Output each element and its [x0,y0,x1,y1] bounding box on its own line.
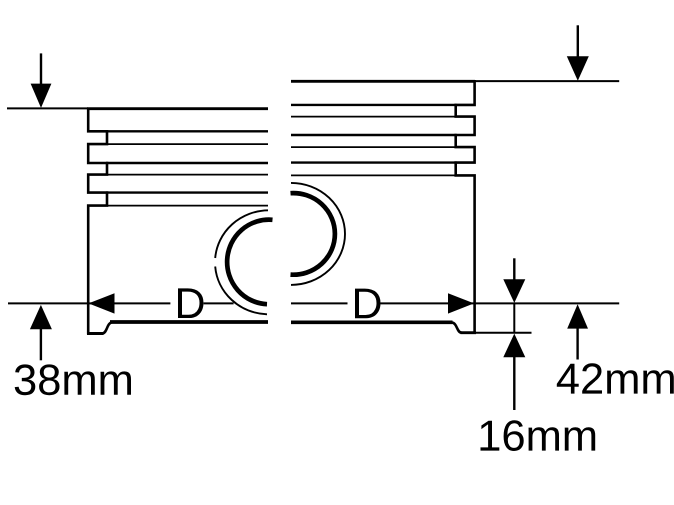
left piston skirt fillet [103,322,114,333]
16mm arrow (pointing up) head [503,334,525,358]
left piston skirt bottom line [110,320,268,324]
right piston ring line 2 top [291,134,457,136]
dimension line D (left piston, right of letter) [204,302,234,304]
right piston skirt bottom line [291,320,453,324]
16mm arrow (pointing down) head [503,279,525,303]
42mm arrow (pointing up) shaft [576,328,578,360]
left piston bottom tip line [87,332,104,335]
38mm arrow (pointing down) head [31,84,52,108]
right piston crown extension line [474,80,619,82]
dimension line D (left piston, left of letter) [8,302,170,304]
left piston left edge with ring grooves [88,108,107,335]
left piston ring line 2 bottom [106,174,268,176]
left piston pin bore inner thick arc [227,220,272,305]
right piston ring line 3 top [291,161,457,163]
38mm arrow (pointing up) head [30,305,52,329]
42mm arrow (pointing down) head [567,56,589,80]
16mm arrow (pointing down) shaft [513,258,515,281]
left piston pin bore outer arc [215,210,268,258]
label 38mm [15,364,131,395]
38mm arrow (pointing down) shaft [40,53,42,85]
right piston ring line 1 bottom [291,116,457,118]
right piston skirt fillet [452,322,462,332]
16mm connector line between arrows [513,303,515,333]
dimension line D (right piston, right of letter) [381,302,620,304]
38mm arrow (pointing up) shaft [40,329,42,361]
arrowhead D left [89,293,115,313]
left piston crown [87,107,268,110]
left piston ring line 3 bottom [106,205,268,207]
right piston crown [291,80,475,83]
arrowhead D right [448,293,474,313]
16mm arrow (pointing up) shaft [513,356,515,410]
dimension line D (right piston, left of letter) [291,302,348,304]
right piston bottom tip line [461,331,477,334]
left piston ring line 1 top [106,130,268,132]
right piston pin bore outer arc [291,183,345,285]
right piston ring line 3 bottom [291,174,457,176]
right piston ring line 2 bottom [291,146,457,148]
label 16mm [481,420,596,451]
left piston ring line 3 top [106,191,268,193]
right piston right edge with ring grooves [456,80,475,334]
42mm arrow (pointing down) shaft [577,25,579,57]
left piston crown extension line [7,107,88,109]
label D right [355,289,381,319]
42mm arrow (pointing up) head [567,304,588,328]
label D left [178,288,204,318]
label 42mm [557,363,674,393]
16mm extension line at skirt bottom [476,332,532,334]
right piston pin bore inner thick arc [291,193,335,275]
left piston ring line 1 bottom [106,143,268,145]
right piston ring line 1 top [291,104,457,106]
left piston ring line 2 top [106,162,268,164]
